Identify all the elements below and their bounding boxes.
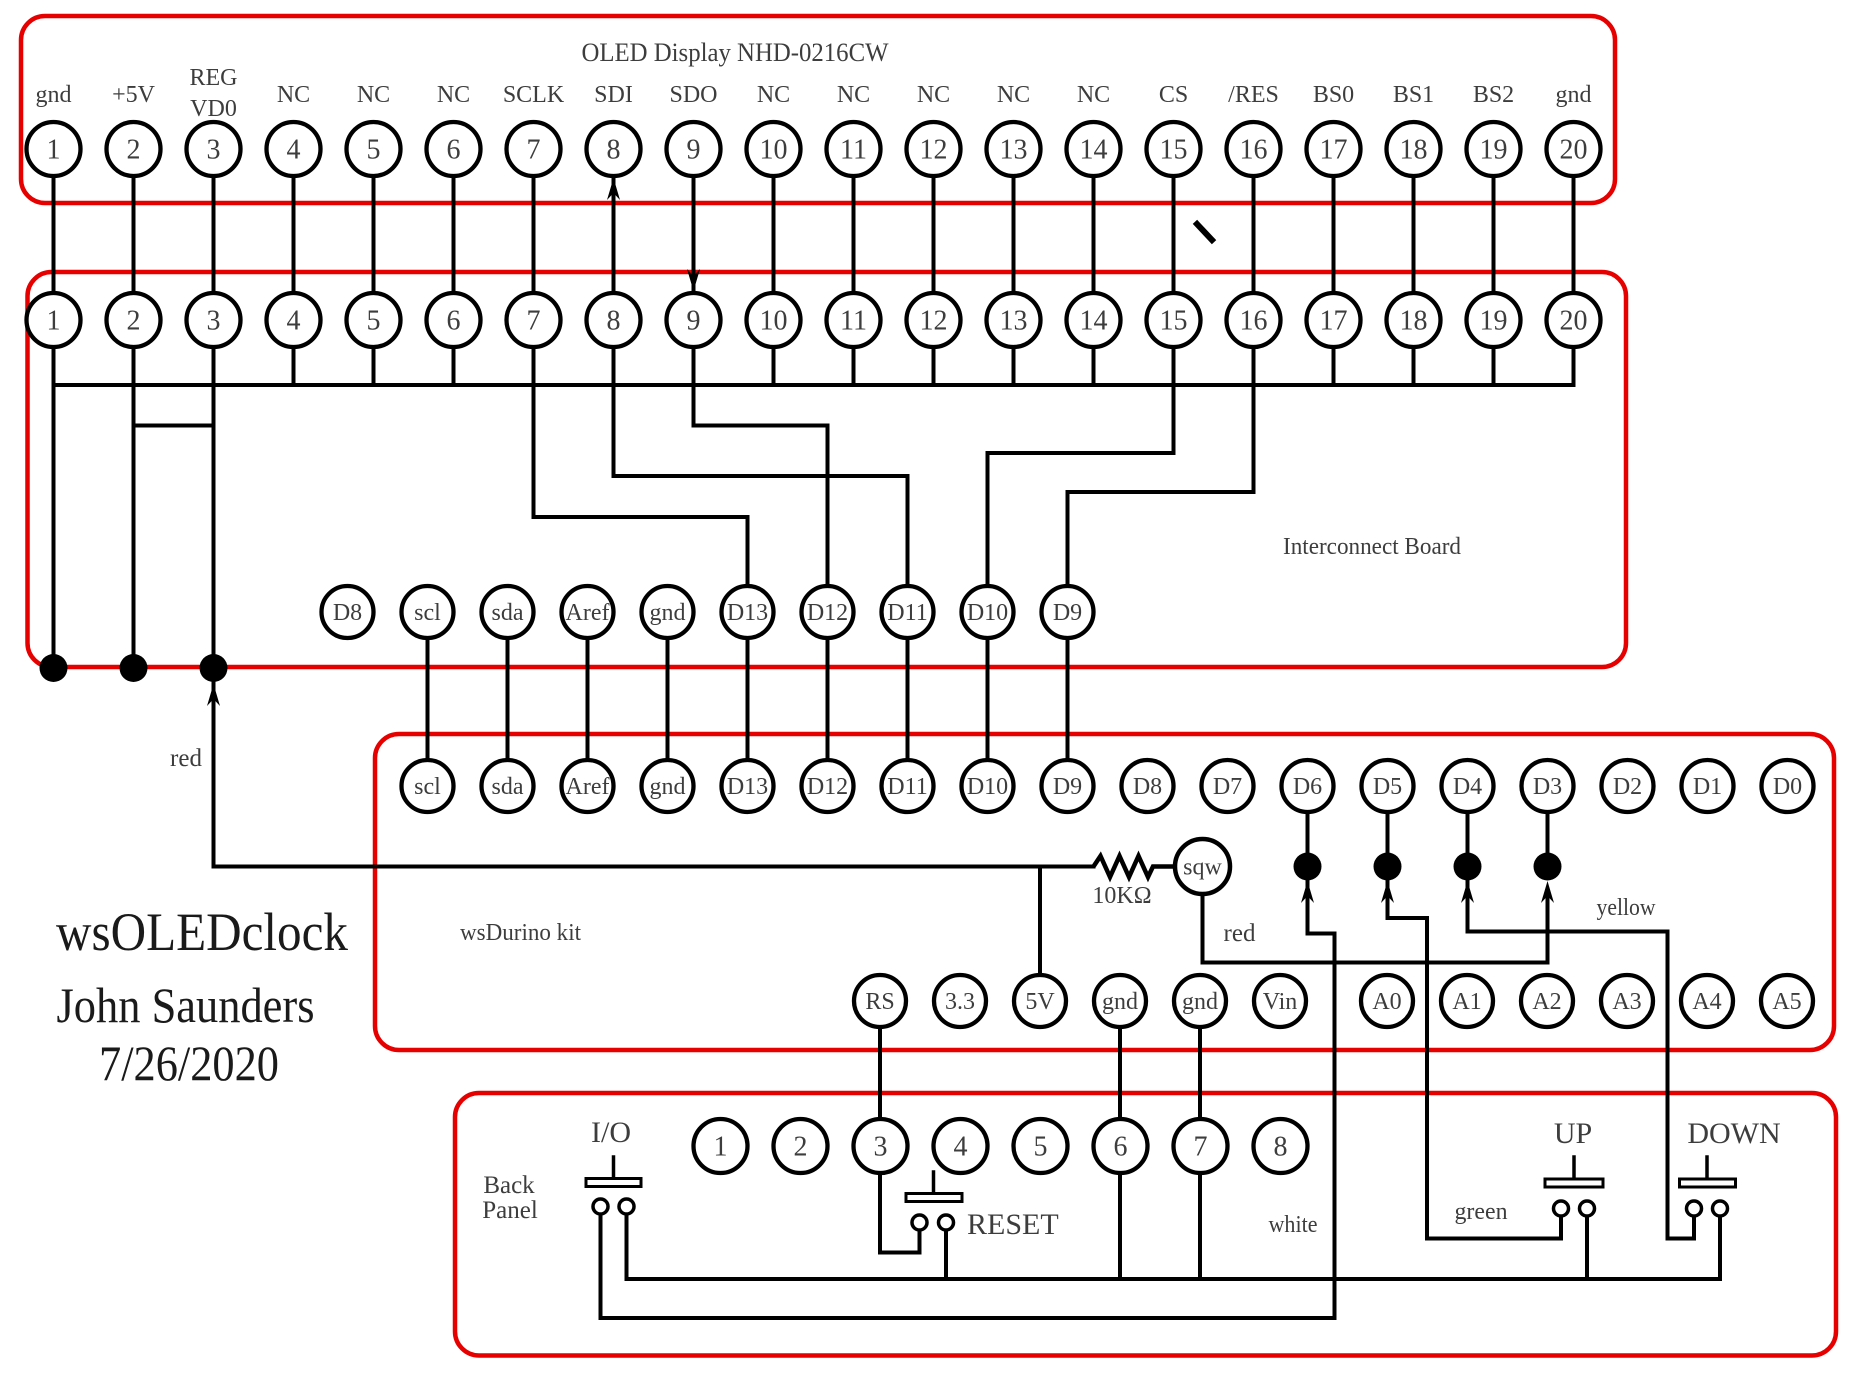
svg-text:VD0: VD0 bbox=[190, 96, 237, 122]
interconnect board pin 2 bbox=[107, 293, 161, 347]
wire OLED pin 19 to interconnect pin 19 bbox=[1492, 149, 1496, 385]
svg-text:red: red bbox=[170, 745, 202, 772]
svg-text:6: 6 bbox=[447, 135, 461, 166]
svg-text:4: 4 bbox=[287, 135, 301, 166]
resistor R1 10K ohm bbox=[1094, 856, 1178, 877]
svg-text:BS1: BS1 bbox=[1393, 82, 1434, 108]
svg-text:REG: REG bbox=[190, 65, 238, 91]
wire RESET right terminal to gnd bus bbox=[944, 1230, 948, 1279]
svg-text:D9: D9 bbox=[1053, 600, 1082, 626]
svg-text:scl: scl bbox=[414, 774, 441, 800]
svg-text:Aref: Aref bbox=[566, 774, 610, 800]
svg-text:5: 5 bbox=[367, 135, 381, 166]
interconnect board pad D12 bbox=[802, 586, 854, 638]
wire OLED pin 5 to interconnect pin 5 bbox=[372, 149, 376, 385]
wsDurino pin D8 bbox=[1122, 760, 1174, 812]
wire white D6 to back panel bbox=[1333, 934, 1337, 1319]
svg-text:gnd: gnd bbox=[650, 774, 686, 800]
svg-text:UP: UP bbox=[1554, 1117, 1592, 1150]
svg-text:A0: A0 bbox=[1372, 989, 1401, 1015]
arrowhead white wire into node D6 bbox=[1301, 881, 1314, 903]
svg-text:D3: D3 bbox=[1533, 774, 1562, 800]
svg-text:SDO: SDO bbox=[669, 82, 717, 108]
wsDurino pin Vin bbox=[1254, 975, 1306, 1027]
svg-text:sqw: sqw bbox=[1183, 855, 1222, 881]
wire up to DOWN left terminal bbox=[1692, 1216, 1696, 1239]
OLED display pin 13 (NC) bbox=[987, 122, 1041, 176]
svg-text:wsOLEDclock: wsOLEDclock bbox=[56, 902, 348, 962]
OLED display pin 17 (BS0) bbox=[1307, 122, 1361, 176]
wire D6 down through node bbox=[1306, 812, 1310, 934]
svg-text:15: 15 bbox=[1160, 306, 1188, 337]
wire OLED pin 9 to interconnect pin 9 bbox=[692, 149, 696, 385]
svg-text:2: 2 bbox=[794, 1132, 808, 1163]
wire up to UP left terminal bbox=[1559, 1216, 1563, 1239]
interconnect board outline bbox=[28, 272, 1627, 667]
wsDurino pin D11 bbox=[882, 760, 934, 812]
wire OLED pin 15 to interconnect pin 15 bbox=[1172, 149, 1176, 385]
wire OLED pin 13 to interconnect pin 13 bbox=[1012, 149, 1016, 385]
svg-text:9: 9 bbox=[687, 135, 701, 166]
svg-text:3: 3 bbox=[207, 135, 221, 166]
wire D5 down through node bbox=[1386, 812, 1390, 918]
switch I/O bbox=[586, 1157, 641, 1214]
svg-text:D13: D13 bbox=[727, 600, 768, 626]
wire SDI to D11 horizontal bbox=[614, 474, 908, 478]
wsDurino pin A5 bbox=[1761, 975, 1813, 1027]
wire green D5 to back panel bbox=[1425, 918, 1429, 1239]
interconnect board pin 8 bbox=[587, 293, 641, 347]
interconnect board pin 15 bbox=[1147, 293, 1201, 347]
back panel pin 7 bbox=[1174, 1119, 1228, 1173]
wsDurino pin RS bbox=[854, 975, 906, 1027]
interconnect board pad scl bbox=[402, 586, 454, 638]
interconnect board pin 1 bbox=[27, 293, 81, 347]
interconnect board pin 7 bbox=[507, 293, 561, 347]
svg-text:11: 11 bbox=[840, 135, 867, 166]
interconnect board pad sda bbox=[482, 586, 534, 638]
wire interconnect D11 to wsDurino bbox=[906, 612, 910, 786]
wire into D10 bbox=[986, 453, 990, 612]
OLED display pin 14 (NC) bbox=[1067, 122, 1121, 176]
wsDurino pin D3 bbox=[1522, 760, 1574, 812]
wire CS pin 15 drop bbox=[1172, 385, 1176, 453]
wire OLED pin 11 to interconnect pin 11 bbox=[852, 149, 856, 385]
svg-text:19: 19 bbox=[1480, 135, 1508, 166]
svg-text:gnd: gnd bbox=[1556, 82, 1592, 108]
OLED display pin 2 (+5V) bbox=[107, 122, 161, 176]
wsDurino pin A3 bbox=[1601, 975, 1653, 1027]
wire gnd to back panel pin 6 and bus bbox=[1118, 1001, 1122, 1279]
svg-text:RESET: RESET bbox=[967, 1208, 1059, 1241]
svg-text:17: 17 bbox=[1320, 306, 1348, 337]
OLED display pin 6 (NC) bbox=[427, 122, 481, 176]
interconnect board pin 14 bbox=[1067, 293, 1121, 347]
wire UP right terminal to gnd bus bbox=[1585, 1216, 1589, 1279]
interconnect board pad D11 bbox=[882, 586, 934, 638]
svg-text:7/26/2020: 7/26/2020 bbox=[99, 1035, 279, 1091]
interconnect board pin 13 bbox=[987, 293, 1041, 347]
wire OLED pin 2 to interconnect pin 2 bbox=[132, 149, 136, 385]
wire gnd to back panel pin 7 and bus bbox=[1198, 1001, 1202, 1279]
switch DOWN bbox=[1680, 1157, 1736, 1216]
svg-text:20: 20 bbox=[1560, 135, 1588, 166]
svg-text:2: 2 bbox=[127, 306, 141, 337]
wire SDO to D12 horizontal bbox=[694, 424, 828, 428]
svg-text:wsDurino kit: wsDurino kit bbox=[460, 920, 581, 946]
wire green horizontal to UP switch bbox=[1427, 1237, 1561, 1241]
svg-text:gnd: gnd bbox=[1182, 989, 1218, 1015]
wire up to I/O left terminal bbox=[599, 1214, 603, 1318]
svg-text:A3: A3 bbox=[1612, 989, 1641, 1015]
OLED display pin 16 (/RES) bbox=[1227, 122, 1281, 176]
svg-text:10: 10 bbox=[760, 306, 788, 337]
back panel pin 2 bbox=[774, 1119, 828, 1173]
wire gnd bus across interconnect board bbox=[54, 383, 1574, 387]
svg-text:NC: NC bbox=[757, 82, 790, 108]
OLED display pin 15 (CS) bbox=[1147, 122, 1201, 176]
svg-text:+5V: +5V bbox=[112, 82, 156, 108]
wire yellow vertical to back panel bbox=[1666, 932, 1670, 1239]
wsDurino pin gnd bbox=[642, 760, 694, 812]
OLED display pin 11 (NC) bbox=[827, 122, 881, 176]
interconnect board pad Aref bbox=[562, 586, 614, 638]
svg-text:D11: D11 bbox=[887, 600, 927, 626]
svg-text:D2: D2 bbox=[1613, 774, 1642, 800]
svg-text:BS2: BS2 bbox=[1473, 82, 1514, 108]
wire interconnect pin 2 (+5V) down to node bbox=[132, 385, 136, 668]
interconnect board pin 4 bbox=[267, 293, 321, 347]
svg-text:D7: D7 bbox=[1213, 774, 1242, 800]
svg-text:D5: D5 bbox=[1373, 774, 1402, 800]
OLED display pin 8 (SDI) bbox=[587, 122, 641, 176]
wire gnd bus in back panel bbox=[627, 1277, 1721, 1281]
wire interconnect pin 3 (REG VD0) down to node bbox=[212, 385, 216, 668]
svg-text:D10: D10 bbox=[967, 774, 1008, 800]
wire OLED pin 20 to interconnect pin 20 bbox=[1572, 149, 1576, 385]
svg-text:A1: A1 bbox=[1452, 989, 1481, 1015]
interconnect board pin 12 bbox=[907, 293, 961, 347]
interconnect board pin 20 bbox=[1547, 293, 1601, 347]
wire interconnect sda to wsDurino bbox=[506, 612, 510, 786]
wire white bottom run to I/O switch bbox=[601, 1316, 1335, 1320]
svg-text:Back: Back bbox=[483, 1172, 535, 1199]
OLED display pin 19 (BS2) bbox=[1467, 122, 1521, 176]
OLED display pin 18 (BS1) bbox=[1387, 122, 1441, 176]
back panel outline bbox=[455, 1093, 1836, 1356]
wire interconnect Aref to wsDurino bbox=[586, 612, 590, 786]
wire red from node 3 down bbox=[212, 668, 216, 867]
wsDurino pin D2 bbox=[1602, 760, 1654, 812]
svg-text:SDI: SDI bbox=[594, 82, 633, 108]
interconnect board pin 6 bbox=[427, 293, 481, 347]
wsDurino pin D4 bbox=[1442, 760, 1494, 812]
wire D5 jog bbox=[1388, 916, 1428, 920]
svg-text:5: 5 bbox=[1034, 1132, 1048, 1163]
wire interconnect D13 to wsDurino bbox=[746, 612, 750, 786]
wire SDO pin 9 drop bbox=[692, 385, 696, 426]
svg-text:NC: NC bbox=[357, 82, 390, 108]
svg-text:8: 8 bbox=[607, 306, 621, 337]
junction node REG VD0 at pin 3 bbox=[200, 654, 228, 682]
wire OLED pin 16 to interconnect pin 16 bbox=[1252, 149, 1256, 385]
wire OLED pin 14 to interconnect pin 14 bbox=[1092, 149, 1096, 385]
svg-text:2: 2 bbox=[127, 135, 141, 166]
svg-text:A2: A2 bbox=[1532, 989, 1561, 1015]
svg-text:D0: D0 bbox=[1773, 774, 1802, 800]
svg-text:1: 1 bbox=[47, 135, 61, 166]
wsDurino pin A0 bbox=[1361, 975, 1413, 1027]
junction node gnd at pin 1 bbox=[40, 654, 68, 682]
wsDurino pin gnd bbox=[1174, 975, 1226, 1027]
svg-text:D11: D11 bbox=[887, 774, 927, 800]
svg-text:1: 1 bbox=[47, 306, 61, 337]
OLED display pin 12 (NC) bbox=[907, 122, 961, 176]
svg-text:17: 17 bbox=[1320, 135, 1348, 166]
wire D4 down through node bbox=[1466, 812, 1470, 932]
junction node D6 bbox=[1294, 853, 1322, 881]
svg-text:NC: NC bbox=[837, 82, 870, 108]
svg-text:D13: D13 bbox=[727, 774, 768, 800]
interconnect board pin 3 bbox=[187, 293, 241, 347]
back panel pin 6 bbox=[1094, 1119, 1148, 1173]
svg-text:3: 3 bbox=[207, 306, 221, 337]
wsDurino pin D5 bbox=[1362, 760, 1414, 812]
svg-text:BS0: BS0 bbox=[1313, 82, 1354, 108]
svg-text:20: 20 bbox=[1560, 306, 1588, 337]
svg-text:green: green bbox=[1455, 1199, 1508, 1225]
wire /RES pin 16 drop bbox=[1252, 385, 1256, 492]
svg-text:scl: scl bbox=[414, 600, 441, 626]
wire OLED pin 4 to interconnect pin 4 bbox=[292, 149, 296, 385]
svg-text:16: 16 bbox=[1240, 306, 1268, 337]
svg-text:D10: D10 bbox=[967, 600, 1008, 626]
wire RS to back panel pin 3 and down bbox=[878, 1001, 882, 1253]
svg-text:D8: D8 bbox=[333, 600, 362, 626]
wire interconnect gnd to wsDurino bbox=[666, 612, 670, 786]
wire interconnect D12 to wsDurino bbox=[826, 612, 830, 786]
svg-text:NC: NC bbox=[437, 82, 470, 108]
svg-text:19: 19 bbox=[1480, 306, 1508, 337]
svg-text:14: 14 bbox=[1080, 135, 1108, 166]
svg-text:yellow: yellow bbox=[1597, 895, 1657, 921]
svg-text:10: 10 bbox=[760, 135, 788, 166]
wire OLED pin 1 to interconnect pin 1 bbox=[52, 149, 56, 385]
interconnect board pad D9 bbox=[1042, 586, 1094, 638]
svg-text:I/O: I/O bbox=[591, 1116, 631, 1149]
wire SCLK to D13 horizontal bbox=[534, 515, 748, 519]
interconnect board pad D13 bbox=[722, 586, 774, 638]
wsDurino pin D12 bbox=[802, 760, 854, 812]
arrowhead red wire into node 3 bbox=[207, 684, 220, 706]
wire SDI pin 8 drop bbox=[612, 385, 616, 476]
svg-text:sda: sda bbox=[492, 600, 524, 626]
svg-text:gnd: gnd bbox=[1102, 989, 1138, 1015]
junction node +5V at pin 2 bbox=[120, 654, 148, 682]
svg-text:18: 18 bbox=[1400, 135, 1428, 166]
wire interconnect D9 to wsDurino bbox=[1066, 612, 1070, 786]
wire up to I/O right terminal bbox=[625, 1214, 629, 1279]
wire into D9 bbox=[1066, 492, 1070, 612]
svg-text:15: 15 bbox=[1160, 135, 1188, 166]
wire sqw down bbox=[1201, 894, 1205, 963]
svg-text:D8: D8 bbox=[1133, 774, 1162, 800]
svg-text:10KΩ: 10KΩ bbox=[1092, 883, 1151, 909]
arrowhead yellow wire into node D4 bbox=[1461, 881, 1474, 903]
wsDurino pin gnd bbox=[1094, 975, 1146, 1027]
OLED display pin 20 (gnd) bbox=[1547, 122, 1601, 176]
svg-text:14: 14 bbox=[1080, 306, 1108, 337]
svg-text:NC: NC bbox=[997, 82, 1030, 108]
interconnect board pin 11 bbox=[827, 293, 881, 347]
wsDurino pin scl bbox=[402, 760, 454, 812]
interconnect board pad D10 bbox=[962, 586, 1014, 638]
svg-text:D1: D1 bbox=[1693, 774, 1722, 800]
arrowhead SDI signal into OLED pin 8 bbox=[607, 178, 620, 200]
arrowhead SDO signal into interconnect pin 9 bbox=[687, 269, 700, 291]
interconnect board pin 10 bbox=[747, 293, 801, 347]
svg-text:Panel: Panel bbox=[482, 1197, 538, 1224]
svg-text:NC: NC bbox=[1077, 82, 1110, 108]
switch RESET bbox=[906, 1172, 962, 1230]
svg-text:Interconnect Board: Interconnect Board bbox=[1283, 534, 1461, 560]
junction node D3 bbox=[1534, 853, 1562, 881]
wire OLED pin 8 to interconnect pin 8 bbox=[612, 149, 616, 385]
svg-text:DOWN: DOWN bbox=[1687, 1117, 1780, 1150]
wire interconnect scl to wsDurino bbox=[426, 612, 430, 786]
wire yellow jog to DOWN switch bbox=[1668, 1237, 1695, 1241]
svg-text:13: 13 bbox=[1000, 135, 1028, 166]
interconnect board pin 18 bbox=[1387, 293, 1441, 347]
wire yellow D4 horizontal bbox=[1468, 930, 1668, 934]
svg-text:gnd: gnd bbox=[36, 82, 72, 108]
svg-text:12: 12 bbox=[920, 135, 948, 166]
wire tie pin 2 to pin 3 bbox=[134, 424, 214, 428]
svg-text:John Saunders: John Saunders bbox=[57, 977, 315, 1033]
junction node D4 bbox=[1454, 853, 1482, 881]
back panel pin 1 bbox=[694, 1119, 748, 1173]
wire CS to D10 horizontal bbox=[988, 451, 1174, 455]
svg-text:11: 11 bbox=[840, 306, 867, 337]
svg-text:16: 16 bbox=[1240, 135, 1268, 166]
OLED display pin 9 (SDO) bbox=[667, 122, 721, 176]
wsDurino pin D7 bbox=[1202, 760, 1254, 812]
svg-text:5V: 5V bbox=[1025, 989, 1055, 1015]
wire red horizontal to resistor and 5V bbox=[214, 865, 1094, 869]
OLED display pin 10 (NC) bbox=[747, 122, 801, 176]
arrowhead green wire into node D5 bbox=[1381, 881, 1394, 903]
svg-text:CS: CS bbox=[1159, 82, 1188, 108]
svg-text:13: 13 bbox=[1000, 306, 1028, 337]
switch UP bbox=[1545, 1157, 1603, 1216]
wsDurino pin Aref bbox=[562, 760, 614, 812]
arrowhead red sqw wire into node D3 bbox=[1541, 881, 1554, 903]
OLED display pin 3 (REG/VD0) bbox=[187, 122, 241, 176]
svg-text:8: 8 bbox=[1274, 1132, 1288, 1163]
svg-text:SCLK: SCLK bbox=[503, 82, 565, 108]
svg-text:3.3: 3.3 bbox=[945, 989, 975, 1015]
wsDurino pin sda bbox=[482, 760, 534, 812]
svg-text:D12: D12 bbox=[807, 600, 848, 626]
svg-text:1: 1 bbox=[714, 1132, 728, 1163]
wire /RES to D9 horizontal bbox=[1068, 490, 1254, 494]
svg-text:A4: A4 bbox=[1692, 989, 1721, 1015]
wire DOWN right terminal to gnd bus bbox=[1718, 1216, 1722, 1279]
wsDurino pin D9 bbox=[1042, 760, 1094, 812]
wire OLED pin 18 to interconnect pin 18 bbox=[1412, 149, 1416, 385]
wire 5V riser bbox=[1038, 867, 1042, 1002]
back panel pin 4 bbox=[934, 1119, 988, 1173]
OLED display board outline bbox=[21, 16, 1615, 203]
wsDurino pin A2 bbox=[1521, 975, 1573, 1027]
wsDurino pin D1 bbox=[1682, 760, 1734, 812]
svg-text:A5: A5 bbox=[1772, 989, 1801, 1015]
wire D3 down to node bbox=[1546, 812, 1550, 867]
svg-text:7: 7 bbox=[1194, 1132, 1208, 1163]
wsDurino pin 3.3 bbox=[934, 975, 986, 1027]
svg-text:8: 8 bbox=[607, 135, 621, 166]
svg-text:red: red bbox=[1224, 920, 1256, 947]
wsDurino pin A1 bbox=[1441, 975, 1493, 1027]
wire into D13 bbox=[746, 517, 750, 612]
svg-text:D4: D4 bbox=[1453, 774, 1482, 800]
svg-text:4: 4 bbox=[954, 1132, 968, 1163]
interconnect board pin 9 bbox=[667, 293, 721, 347]
wsDurino pin 5V bbox=[1014, 975, 1066, 1027]
svg-text:OLED Display NHD-0216CW: OLED Display NHD-0216CW bbox=[582, 38, 889, 67]
svg-text:12: 12 bbox=[920, 306, 948, 337]
wire OLED pin 7 to interconnect pin 7 bbox=[532, 149, 536, 385]
OLED display pin 4 (NC) bbox=[267, 122, 321, 176]
svg-text:3: 3 bbox=[874, 1132, 888, 1163]
wsDurino pin D6 bbox=[1282, 760, 1334, 812]
svg-text:gnd: gnd bbox=[650, 600, 686, 626]
wire OLED pin 12 to interconnect pin 12 bbox=[932, 149, 936, 385]
svg-text:NC: NC bbox=[277, 82, 310, 108]
wire D6 jog bbox=[1308, 932, 1335, 936]
wire interconnect pin 1 (gnd) down to node bbox=[52, 385, 56, 668]
wire OLED pin 17 to interconnect pin 17 bbox=[1332, 149, 1336, 385]
back panel pin 5 bbox=[1014, 1119, 1068, 1173]
interconnect board pin 19 bbox=[1467, 293, 1521, 347]
stray mark between pins 15 and 16 bbox=[1197, 224, 1212, 240]
OLED display pin 5 (NC) bbox=[347, 122, 401, 176]
svg-text:NC: NC bbox=[917, 82, 950, 108]
OLED display pin 7 (SCLK) bbox=[507, 122, 561, 176]
svg-text:18: 18 bbox=[1400, 306, 1428, 337]
svg-text:9: 9 bbox=[687, 306, 701, 337]
OLED display pin 1 (gnd) bbox=[27, 122, 81, 176]
interconnect board pin 5 bbox=[347, 293, 401, 347]
svg-text:7: 7 bbox=[527, 306, 541, 337]
svg-text:Vin: Vin bbox=[1263, 989, 1298, 1015]
svg-text:RS: RS bbox=[865, 989, 894, 1015]
wire red sqw to D3 horizontal bbox=[1203, 961, 1548, 965]
wire SCLK pin 7 drop bbox=[532, 385, 536, 517]
svg-text:7: 7 bbox=[527, 135, 541, 166]
wsDurino pin D0 bbox=[1762, 760, 1814, 812]
svg-text:4: 4 bbox=[287, 306, 301, 337]
wire OLED pin 6 to interconnect pin 6 bbox=[452, 149, 456, 385]
wire into D11 bbox=[906, 476, 910, 612]
svg-text:6: 6 bbox=[447, 306, 461, 337]
svg-text:5: 5 bbox=[367, 306, 381, 337]
wire into D12 bbox=[826, 426, 830, 613]
svg-text:D6: D6 bbox=[1293, 774, 1322, 800]
svg-text:D12: D12 bbox=[807, 774, 848, 800]
wsDurino pin D13 bbox=[722, 760, 774, 812]
wire interconnect D10 to wsDurino bbox=[986, 612, 990, 786]
